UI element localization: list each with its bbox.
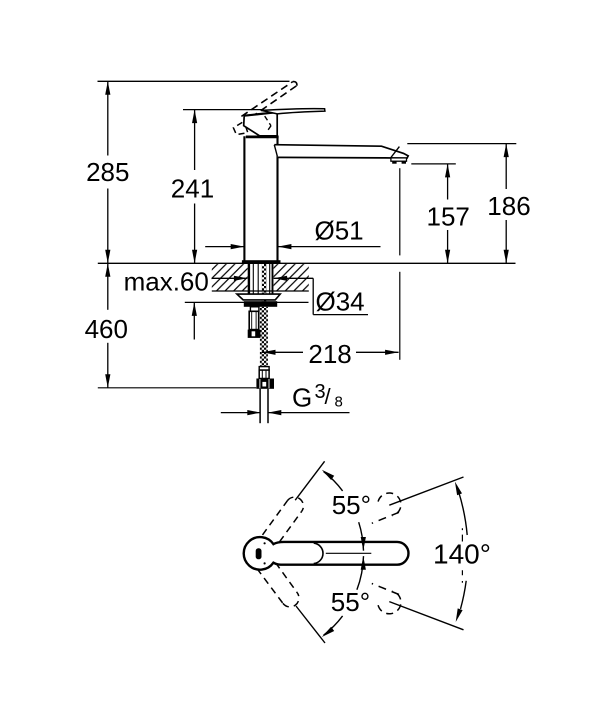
countertop hatched section <box>212 264 248 291</box>
55 deg limit line upper <box>295 461 324 500</box>
svg-text:Ø34: Ø34 <box>316 286 365 316</box>
dimension 285 <box>107 81 109 155</box>
svg-text:186: 186 <box>487 191 530 221</box>
dimension 241 <box>194 110 196 170</box>
faucet base flange <box>242 260 281 263</box>
dimension 157 <box>411 163 456 165</box>
svg-text:285: 285 <box>86 157 129 187</box>
wire top reference line (285 max height) <box>98 80 290 82</box>
svg-text:218: 218 <box>308 339 351 369</box>
swivel spout rotated +55 deg (dashed, upper) <box>263 501 288 535</box>
svg-text:241: 241 <box>171 173 214 203</box>
140 deg limit line lower <box>389 602 463 630</box>
swivel spout rotated -55 deg (dashed, lower) <box>257 568 283 603</box>
dimension Ø51 <box>205 246 244 248</box>
mounting washer plate <box>237 294 280 300</box>
svg-text:8: 8 <box>335 393 343 410</box>
wire spout outlet extension line <box>399 168 401 255</box>
wire counter underside (hatch bottom) <box>212 290 309 292</box>
svg-text:460: 460 <box>85 314 128 344</box>
fixing stud <box>250 307 259 312</box>
svg-text:157: 157 <box>427 202 470 232</box>
wire slab bottom line (max.60 plane) <box>185 301 309 303</box>
aerator <box>391 158 407 161</box>
threaded tailpiece (checkered) <box>262 264 267 303</box>
svg-text:/: / <box>325 384 332 409</box>
wire 241 extension line <box>183 109 263 111</box>
svg-text:55°: 55° <box>331 587 370 617</box>
faucet lever ghost rear tip (dashed) <box>233 122 247 134</box>
handle slot <box>256 548 262 559</box>
faucet body and spout outline (plan) <box>244 537 409 570</box>
dimension 55 deg upper arc <box>324 472 343 491</box>
dimension 460 <box>107 263 109 310</box>
vertical centerline through 140 label <box>461 528 463 541</box>
dimension 186 <box>407 143 516 145</box>
spout centerline <box>326 552 372 554</box>
55 deg limit line lower <box>296 606 325 643</box>
faucet shank walls <box>248 264 250 294</box>
lever ghost inner dashes <box>265 116 271 126</box>
fixing stud nut <box>248 330 261 338</box>
flexible supply hose (braided) <box>260 307 268 367</box>
wire countertop line <box>98 262 516 264</box>
faucet head base bar <box>246 135 279 138</box>
svg-text:max.60: max.60 <box>124 266 209 296</box>
faucet head body <box>244 112 278 136</box>
dimension G3/8 <box>221 412 261 414</box>
spout tip ghost lower (dashed) <box>378 591 401 614</box>
svg-text:55°: 55° <box>332 490 371 520</box>
faucet lever raised position (dashed ghost) <box>241 82 292 117</box>
dimension 218 <box>262 351 303 353</box>
faucet lever blade <box>261 109 325 114</box>
wire 460 bottom reference line <box>98 387 256 389</box>
spout tip ghost upper (dashed) <box>378 493 401 516</box>
hose connection nut G3/8 <box>256 379 274 389</box>
faucet body column <box>243 136 245 262</box>
dimension Ø34 <box>212 277 248 279</box>
dimension 55 deg lower arc <box>357 556 364 590</box>
svg-text:140°: 140° <box>433 539 491 570</box>
140 deg limit line upper <box>389 477 463 505</box>
connection tube <box>259 389 261 423</box>
mounting nut <box>244 301 277 307</box>
hose end fitting <box>259 367 269 371</box>
dimension 140 deg arc <box>459 492 468 535</box>
svg-text:G: G <box>292 382 312 412</box>
spout base section end arc <box>314 543 323 564</box>
faucet spout <box>274 145 408 159</box>
svg-text:Ø51: Ø51 <box>315 216 364 246</box>
spout tip inner edge <box>391 147 400 158</box>
dimension max.60 <box>193 302 195 339</box>
